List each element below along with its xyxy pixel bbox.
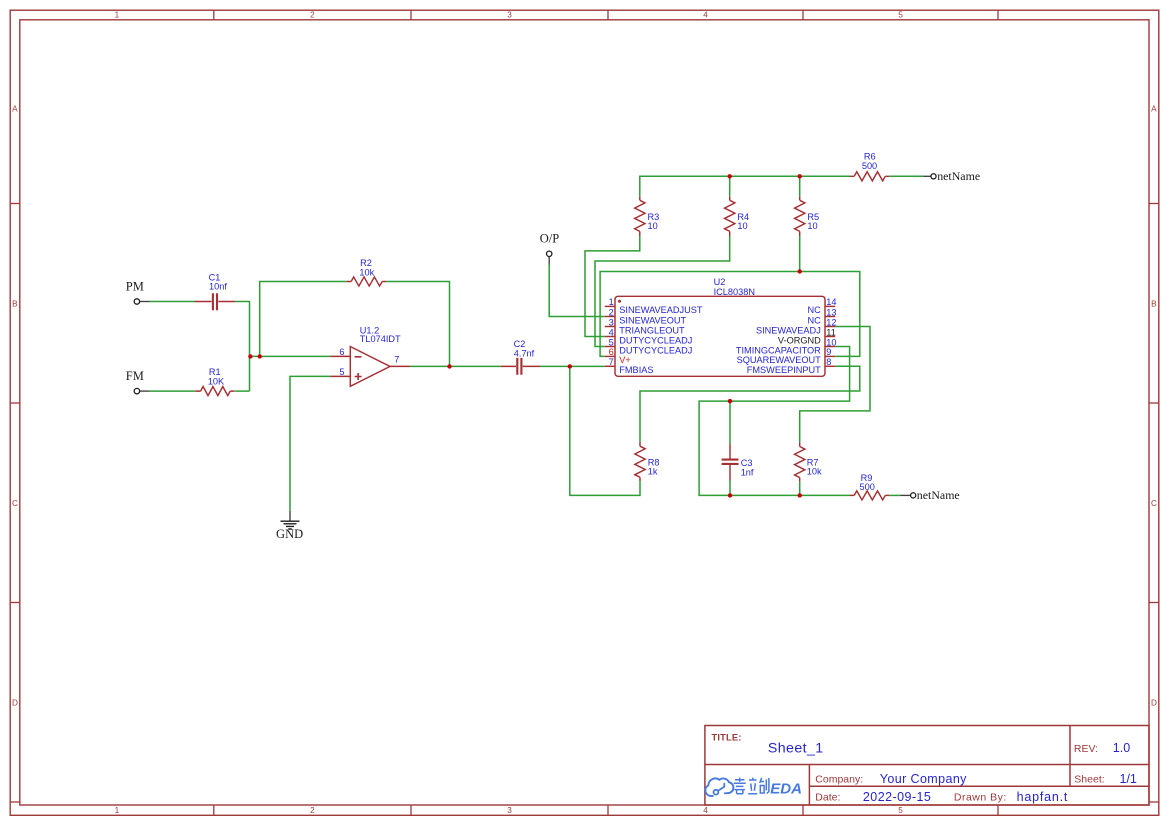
svg-text:5: 5	[898, 11, 903, 20]
resistor R3 leads	[639, 197, 641, 236]
wire C3 top lead	[729, 401, 731, 444]
wire O/P port to IC pin 2	[549, 265, 605, 317]
op-amp U1 triangle	[350, 347, 390, 387]
ground symbol stem	[289, 511, 291, 521]
svg-text:6: 6	[609, 347, 614, 357]
wire op-amp output to C2	[410, 365, 501, 367]
wire PM port to C1	[150, 301, 195, 303]
svg-text:SINEWAVEOUT: SINEWAVEOUT	[619, 315, 686, 325]
wire C2 to IC pin 7 FMBIAS	[540, 365, 605, 367]
svg-text:2: 2	[609, 307, 614, 317]
svg-text:Company:: Company:	[815, 773, 863, 785]
svg-text:TITLE:: TITLE:	[712, 732, 742, 742]
svg-text:netName: netName	[937, 169, 980, 183]
svg-text:NC: NC	[808, 315, 822, 325]
svg-text:ICL8038N: ICL8038N	[714, 287, 755, 297]
wire R3 bottom to IC pin 4	[585, 236, 640, 337]
svg-text:TRIANGLEOUT: TRIANGLEOUT	[619, 325, 685, 335]
svg-text:SINEWAVEADJ: SINEWAVEADJ	[756, 325, 821, 335]
svg-text:9: 9	[826, 347, 831, 357]
wire box node to IC pin 6 V+	[600, 272, 800, 357]
svg-text:11: 11	[826, 327, 836, 337]
svg-text:500: 500	[860, 482, 875, 492]
svg-text:D: D	[12, 699, 18, 708]
svg-text:2: 2	[310, 11, 315, 20]
wire C1 to inverting node	[235, 302, 249, 392]
svg-text:TL074IDT: TL074IDT	[360, 334, 401, 344]
port FM circle	[134, 388, 139, 393]
svg-text:Sheet:: Sheet:	[1074, 773, 1104, 785]
svg-text:4: 4	[703, 11, 708, 20]
port FM lead	[140, 390, 150, 392]
resistor R4 leads	[729, 197, 731, 236]
wire op-amp pin 5 to GND	[290, 376, 330, 510]
wire top rail R3 R4 R5 to R6	[640, 176, 850, 197]
port netName bottom circle	[911, 493, 916, 498]
svg-text:U2: U2	[714, 277, 726, 287]
title block logo cell divider	[808, 765, 810, 806]
svg-text:5: 5	[898, 806, 903, 815]
frame row labels A-D	[12, 105, 1157, 708]
svg-text:1: 1	[115, 806, 120, 815]
resistor R9 leads	[850, 494, 889, 496]
svg-text:B: B	[12, 300, 18, 309]
wire feedback node up to R2 left	[260, 282, 347, 357]
svg-text:2022-09-15: 2022-09-15	[863, 790, 931, 804]
capacitor C3 plates	[722, 460, 739, 464]
resistor R5 zigzag	[795, 200, 805, 231]
capacitor C2 leads	[501, 365, 540, 367]
svg-text:DUTYCYCLEADJ: DUTYCYCLEADJ	[619, 335, 692, 345]
svg-text:hapfan.t: hapfan.t	[1017, 790, 1069, 804]
svg-text:B: B	[1151, 300, 1157, 309]
wire IC pin 8 to R8 top	[640, 366, 860, 442]
capacitor C1 plates	[213, 293, 217, 310]
svg-text:Your Company: Your Company	[880, 772, 967, 786]
svg-text:5: 5	[339, 367, 344, 377]
logo hanzi jia	[734, 778, 746, 794]
svg-text:SINEWAVEADJUST: SINEWAVEADJUST	[619, 305, 703, 315]
svg-text:1/1: 1/1	[1120, 772, 1137, 786]
svg-text:FM: FM	[126, 369, 144, 383]
svg-text:EDA: EDA	[770, 781, 802, 798]
svg-text:Sheet_1: Sheet_1	[768, 741, 824, 757]
svg-text:1: 1	[115, 11, 120, 20]
wire R9 right to netName port	[889, 494, 900, 496]
svg-text:Drawn By:: Drawn By:	[954, 792, 1007, 804]
svg-text:13: 13	[826, 307, 836, 317]
port O/P lead	[548, 257, 550, 265]
resistor R7 zigzag	[795, 447, 805, 478]
svg-text:14: 14	[826, 297, 836, 307]
wire IC pin 12 to R7 top	[800, 327, 870, 443]
resistor R6 zigzag	[854, 172, 885, 181]
wire box node to IC pin 9	[800, 272, 860, 357]
logo cloud node link	[718, 784, 724, 791]
wire R1 to inverting node	[235, 390, 249, 392]
svg-text:10: 10	[807, 221, 817, 231]
logo hanzi li	[748, 778, 757, 794]
svg-text:10: 10	[737, 221, 747, 231]
IC U2 left pin stubs 1-7	[605, 306, 615, 366]
resistor R2 leads	[347, 281, 386, 283]
port O/P circle	[547, 251, 552, 256]
title block sheet row divider	[809, 785, 1149, 787]
svg-text:DUTYCYCLEADJ: DUTYCYCLEADJ	[619, 345, 692, 355]
resistor R4 zigzag	[725, 200, 735, 231]
svg-text:4: 4	[703, 806, 708, 815]
port netName top lead	[924, 175, 931, 177]
frame row tick marks	[10, 204, 1159, 803]
svg-text:2: 2	[310, 806, 315, 815]
resistor R2 zigzag	[351, 277, 382, 286]
wire R4 top to rail	[729, 176, 731, 197]
resistor R8 leads	[639, 442, 641, 481]
resistor R1 zigzag	[201, 387, 231, 396]
resistor R8 zigzag	[635, 446, 645, 477]
svg-text:FMBIAS: FMBIAS	[619, 365, 653, 375]
resistor R1 leads	[195, 390, 235, 392]
op-amp U1 minus sign	[355, 356, 362, 358]
svg-text:10: 10	[648, 221, 658, 231]
svg-text:GND: GND	[276, 527, 303, 541]
wire node to op-amp pin 6	[250, 355, 331, 357]
svg-text:3: 3	[507, 806, 512, 815]
resistor R5 leads	[799, 197, 801, 236]
title block row divider	[705, 764, 1149, 766]
svg-text:FMSWEEPINPUT: FMSWEEPINPUT	[747, 365, 821, 375]
op-amp U1 pin stubs	[330, 356, 410, 376]
ground symbol bars	[281, 521, 300, 529]
port PM circle	[134, 299, 139, 304]
wire R5 bottom to box node	[799, 236, 801, 272]
svg-text:NC: NC	[808, 305, 822, 315]
svg-text:4: 4	[609, 327, 614, 337]
IC U2 body	[615, 296, 825, 376]
logo cloud	[705, 778, 733, 796]
wire FM port to R1	[150, 390, 195, 392]
wire output node down to R8 bottom	[570, 366, 640, 495]
svg-text:C: C	[1151, 499, 1157, 508]
port netName top circle	[931, 174, 936, 179]
svg-text:SQUAREWAVEOUT: SQUAREWAVEOUT	[737, 355, 822, 365]
svg-text:4.7nf: 4.7nf	[514, 348, 535, 358]
capacitor C2 plates	[517, 358, 521, 375]
wire IC pin 10 to C3 top	[699, 347, 850, 496]
capacitor C3 leads	[729, 444, 731, 481]
resistor R7 leads	[799, 442, 801, 481]
resistor R9 zigzag	[854, 491, 885, 500]
capacitor C1 leads	[195, 301, 236, 303]
svg-text:REV:: REV:	[1074, 743, 1098, 755]
port PM lead	[140, 301, 150, 303]
wire C3 bottom lead	[729, 481, 731, 496]
wire R6 right to netName port	[889, 175, 923, 177]
title block rev cell divider	[1069, 726, 1071, 787]
svg-text:3: 3	[507, 11, 512, 20]
svg-text:10nf: 10nf	[209, 282, 227, 292]
svg-text:V+: V+	[619, 355, 631, 365]
wire R5 top to rail	[799, 176, 801, 197]
port netName bottom lead	[900, 494, 910, 496]
svg-text:1.0: 1.0	[1113, 741, 1130, 755]
logo cloud node backing	[713, 789, 720, 796]
svg-text:500: 500	[862, 161, 877, 171]
svg-text:PM: PM	[126, 280, 144, 294]
svg-text:A: A	[12, 105, 18, 114]
frame column labels 1-5	[115, 11, 904, 816]
wire R4 bottom to IC pin 5	[595, 236, 730, 347]
IC U2 right pin stubs 8-14	[825, 306, 835, 366]
svg-text:V-ORGND: V-ORGND	[778, 335, 821, 345]
wire R7 bottom lead	[799, 481, 801, 495]
svg-text:6: 6	[339, 347, 344, 357]
svg-text:10k: 10k	[807, 467, 822, 477]
svg-text:10K: 10K	[208, 376, 225, 386]
svg-text:7: 7	[609, 357, 614, 367]
resistor R6 leads	[850, 175, 889, 177]
svg-text:netName: netName	[917, 488, 960, 502]
logo hanzi chuang	[760, 778, 769, 794]
svg-text:C: C	[12, 499, 18, 508]
frame column tick marks	[214, 10, 998, 815]
logo cloud node circle	[714, 790, 719, 795]
op-amp U1 plus sign	[355, 373, 362, 380]
svg-text:12: 12	[826, 317, 836, 327]
svg-text:A: A	[1151, 105, 1157, 114]
wire R2 right down to output	[386, 282, 449, 367]
svg-text:8: 8	[826, 357, 831, 367]
svg-text:3: 3	[609, 317, 614, 327]
junction dots	[248, 174, 802, 497]
svg-text:O/P: O/P	[540, 231, 560, 245]
svg-text:7: 7	[394, 355, 399, 365]
resistor R3 zigzag	[635, 200, 645, 231]
svg-text:TIMINGCAPACITOR: TIMINGCAPACITOR	[736, 345, 821, 355]
svg-text:10: 10	[826, 337, 836, 347]
svg-text:10k: 10k	[359, 267, 374, 277]
svg-text:5: 5	[609, 337, 614, 347]
svg-text:1k: 1k	[648, 467, 658, 477]
IC U2 pin-1 marker dot	[618, 300, 621, 303]
svg-text:1: 1	[609, 297, 614, 307]
svg-text:1nf: 1nf	[741, 467, 754, 477]
svg-text:Date:: Date:	[815, 792, 840, 804]
svg-text:D: D	[1151, 699, 1157, 708]
title block outline	[705, 726, 1149, 806]
